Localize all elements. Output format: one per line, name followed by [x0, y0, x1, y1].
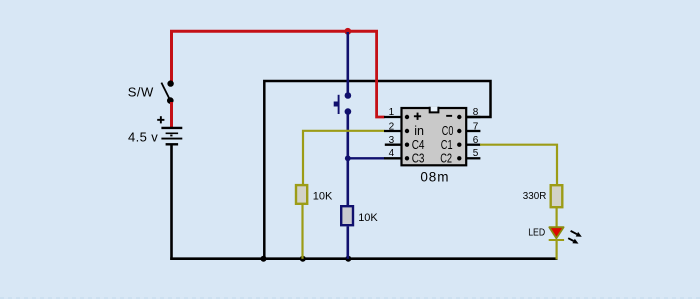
LED D1 — [549, 227, 564, 240]
wire: navy below button to resistor R2 — [346, 115, 349, 207]
wire: navy from +V dot down — [346, 32, 349, 93]
pin 8 stub — [466, 116, 480, 118]
wire: red to pin 1 — [377, 30, 385, 117]
IC notch — [430, 107, 439, 113]
wire: navy to pin 4 — [348, 157, 385, 159]
svg-text:C2: C2 — [440, 151, 452, 166]
push button SW2 — [334, 92, 352, 115]
resistor R3 330R — [551, 185, 563, 207]
svg-text:C3: C3 — [412, 151, 425, 166]
wire: olive 330R to LED — [555, 208, 557, 228]
switch S/W — [161, 80, 173, 103]
pin 5 stub — [466, 157, 480, 159]
svg-text:6: 6 — [473, 135, 479, 146]
svg-text:5: 5 — [473, 148, 479, 159]
resistor R2 10K (navy) — [341, 206, 353, 225]
wire: olive R1 to rail — [301, 205, 303, 259]
wire: navy resistor to rail — [346, 226, 349, 258]
wire: black loop (0V to pin8) — [264, 81, 490, 260]
IC pin dots left — [405, 115, 409, 119]
node: rail junction at R2 — [345, 256, 351, 262]
wire: battery negative down — [170, 145, 173, 260]
resistor R1 10K (olive) — [296, 185, 307, 204]
svg-text:8: 8 — [473, 107, 479, 118]
wire: olive LED to rail — [555, 241, 557, 260]
node: +V junction dot — [344, 28, 351, 35]
svg-text:1: 1 — [389, 107, 395, 118]
IC label minus — [446, 115, 452, 117]
pin 1 stub — [384, 116, 401, 118]
IC pin dots right — [457, 115, 461, 119]
svg-text:08m: 08m — [420, 170, 449, 185]
node: pin4 junction — [345, 155, 351, 161]
svg-text:3: 3 — [389, 135, 395, 146]
svg-text:7: 7 — [473, 121, 479, 132]
wire: red drop to switch — [170, 30, 173, 84]
svg-text:LED: LED — [528, 227, 545, 239]
svg-text:C0: C0 — [442, 123, 454, 138]
node: rail junction at R1 — [300, 256, 306, 262]
wire: +V top rail (red) — [170, 30, 378, 33]
wire: red switch to battery — [170, 102, 173, 129]
svg-text:330R: 330R — [523, 190, 547, 202]
svg-text:10K: 10K — [313, 191, 333, 203]
LED emission arrows — [568, 231, 582, 244]
pin 6 stub — [466, 144, 480, 146]
node: rail junction at box — [261, 256, 267, 262]
pin 2 stub — [384, 130, 401, 132]
svg-text:in: in — [414, 123, 424, 138]
pin 3 stub — [385, 144, 401, 146]
svg-text:2: 2 — [389, 121, 395, 132]
svg-text:4: 4 — [389, 148, 395, 159]
battery B1 4.5v — [157, 116, 182, 144]
svg-text:S/W: S/W — [128, 85, 154, 100]
svg-text:10K: 10K — [358, 212, 378, 224]
pin 7 stub — [466, 130, 480, 132]
wire: 0V bottom rail — [170, 257, 557, 260]
svg-text:4.5 v: 4.5 v — [128, 130, 158, 145]
wire: olive pin2 to R1 — [303, 131, 385, 185]
wire: olive pin6 to 330R — [480, 145, 557, 185]
pin 4 stub — [384, 157, 401, 159]
IC U1 08m body — [402, 108, 467, 165]
IC label + — [414, 115, 421, 117]
